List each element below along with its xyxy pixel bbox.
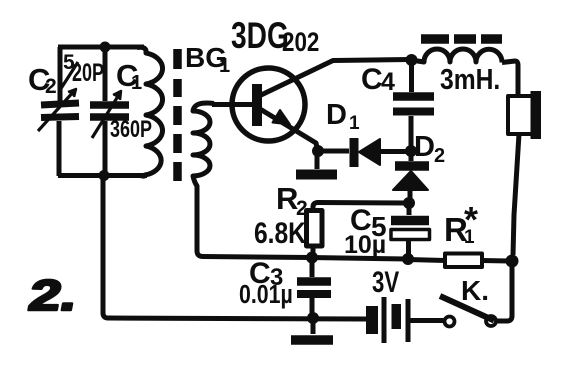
label R1* — [444, 199, 478, 248]
label 3DG202 — [231, 14, 319, 57]
node D1-C4-D2 — [405, 145, 417, 157]
label C5 — [350, 204, 387, 242]
label C1 — [116, 58, 142, 94]
label R2 — [276, 181, 308, 220]
svg-text:4: 4 — [381, 68, 395, 96]
svg-text:C: C — [361, 63, 383, 96]
capacitor C1 — [90, 47, 129, 176]
wire R2 top — [313, 203, 409, 211]
wire R1 right — [482, 258, 512, 264]
node tank top — [100, 42, 111, 53]
transformer BG1 core — [173, 49, 182, 181]
wire right vertical top — [502, 61, 518, 96]
svg-text:10µ: 10µ — [344, 231, 386, 259]
svg-text:*: * — [464, 199, 478, 240]
label C3 — [249, 257, 283, 291]
svg-text:2.: 2. — [25, 271, 81, 319]
node C5 bottom — [402, 253, 414, 265]
label BG1 — [185, 42, 230, 77]
value 5/20P — [63, 51, 104, 87]
resistor R1 — [445, 254, 482, 268]
svg-text:6.8K: 6.8K — [254, 216, 306, 250]
diode D2 — [393, 151, 429, 203]
node tank bottom — [99, 170, 110, 181]
inductor L1 3mH — [411, 49, 502, 63]
label D1 — [326, 99, 360, 134]
svg-text:2: 2 — [45, 75, 57, 98]
wire to R1 — [408, 260, 445, 261]
wire earphone down — [513, 134, 519, 255]
svg-text:D: D — [414, 131, 435, 163]
capacitor C4 — [393, 60, 434, 151]
capacitor C2 — [38, 47, 79, 176]
label C4 — [361, 63, 395, 96]
svg-text:0.01µ: 0.01µ — [239, 280, 293, 310]
capacitor C5 — [391, 203, 430, 259]
wire mid horizontal — [310, 258, 408, 260]
svg-text:D: D — [326, 99, 347, 131]
transformer BG1 primary winding — [137, 47, 163, 176]
node R2 bottom — [306, 252, 318, 264]
wire tank top — [58, 45, 144, 50]
label C2 — [28, 62, 57, 98]
node C3 bottom — [307, 312, 319, 324]
earphone B — [508, 91, 541, 139]
wire tank bottom — [58, 173, 147, 178]
svg-text:3V: 3V — [372, 265, 399, 299]
ground emitter — [296, 151, 337, 175]
inductor core — [421, 34, 502, 44]
node emitter — [312, 145, 324, 157]
diode D1 — [318, 138, 411, 167]
node collector top — [406, 54, 418, 66]
svg-text:1: 1 — [349, 113, 360, 134]
svg-text:2: 2 — [434, 145, 445, 167]
svg-text:K.: K. — [461, 275, 489, 306]
svg-text:3DG: 3DG — [231, 14, 289, 56]
capacitor C3 — [297, 257, 331, 318]
label D2 — [414, 131, 445, 167]
transformer BG1 secondary winding — [193, 103, 310, 257]
svg-text:360P: 360P — [110, 117, 152, 143]
svg-text:1: 1 — [131, 72, 142, 94]
ground C3 — [291, 318, 333, 340]
resistor R2 — [307, 211, 323, 258]
transistor Q1 3DG202 — [212, 60, 409, 151]
battery 3V — [366, 297, 444, 343]
node right — [506, 255, 519, 268]
wire right to switch — [497, 261, 512, 321]
svg-text:1: 1 — [219, 55, 230, 77]
svg-text:202: 202 — [282, 28, 319, 57]
wire left drop — [103, 175, 366, 319]
svg-text:3mH.: 3mH. — [440, 63, 500, 95]
node D2 bottom — [403, 197, 415, 209]
switch K — [440, 296, 496, 327]
